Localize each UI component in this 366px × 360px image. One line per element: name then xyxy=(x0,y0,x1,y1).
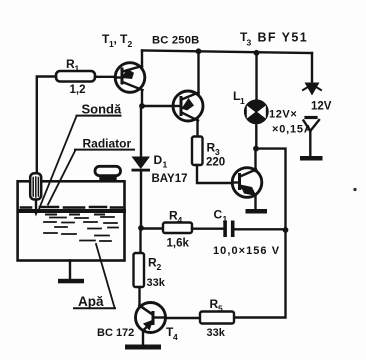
leader line Radiator xyxy=(48,150,76,205)
svg-text:BC 172: BC 172 xyxy=(97,327,134,339)
label R3 xyxy=(207,141,221,158)
svg-text:12V: 12V xyxy=(311,101,332,113)
label R1 xyxy=(66,57,80,74)
resistor R2 xyxy=(134,253,145,287)
resistor R1 xyxy=(56,71,95,82)
transistor T3 xyxy=(232,168,262,198)
underline Sonda xyxy=(77,115,121,117)
svg-text:1: 1 xyxy=(75,64,80,74)
transistor T2 xyxy=(173,91,203,121)
wire rail right drop to supply arrow xyxy=(311,53,313,82)
wire T1 collector to node xyxy=(141,91,143,106)
ground (supply return) xyxy=(300,156,323,161)
svg-text:4: 4 xyxy=(178,215,183,225)
water line xyxy=(19,207,125,215)
wire R3 bottom to T3 base xyxy=(197,165,233,183)
svg-text:BAY17: BAY17 xyxy=(152,173,188,185)
wire R4 to C1 xyxy=(192,227,223,229)
tank stand xyxy=(58,261,84,284)
svg-text:D: D xyxy=(154,153,163,167)
label R5 xyxy=(210,297,224,314)
svg-text:220: 220 xyxy=(206,157,225,169)
wire node right and down to C1 node xyxy=(256,149,286,230)
wire T1 emitter to rail xyxy=(141,51,143,68)
ground T3 emitter xyxy=(246,209,268,214)
label T4 xyxy=(166,325,178,342)
svg-text:2: 2 xyxy=(128,39,133,49)
svg-text:Sondă: Sondă xyxy=(82,102,122,117)
svg-text:33k: 33k xyxy=(207,327,226,339)
wire T3 collector up xyxy=(254,149,256,171)
leader line Sonda xyxy=(39,116,77,209)
ground T4 emitter xyxy=(125,345,161,350)
wire T4 emitter to ground xyxy=(142,330,144,345)
underline Apa xyxy=(74,307,115,309)
underline Radiator xyxy=(75,149,134,151)
svg-text:1,2: 1,2 xyxy=(70,84,86,96)
wire T2 collector to R3 xyxy=(196,120,198,138)
wire return arrow to ground xyxy=(309,130,311,156)
svg-text:4: 4 xyxy=(173,332,178,342)
water texture dashes xyxy=(44,217,118,241)
svg-text:12V×: 12V× xyxy=(269,109,297,121)
svg-text:5: 5 xyxy=(218,304,223,314)
node lamp / T3 / feedback junction xyxy=(253,146,259,152)
label D1 xyxy=(154,153,168,170)
wire R2 to T4 collector xyxy=(138,287,140,307)
svg-text:BC 250B: BC 250B xyxy=(152,35,199,47)
wire lamp bottom to node xyxy=(255,123,257,149)
resistor R3 xyxy=(192,137,203,166)
wire node down to R2 xyxy=(139,228,141,253)
wire T2 emitter to rail xyxy=(197,51,199,95)
wire R1 to T1 base xyxy=(95,76,116,78)
label C1 xyxy=(214,208,228,225)
label R4 xyxy=(169,209,183,226)
node C1 right junction xyxy=(283,227,289,233)
svg-text:3: 3 xyxy=(247,38,252,48)
filler cap xyxy=(95,166,121,181)
node D1 / R4 / R2 junction xyxy=(138,225,144,231)
label T3 xyxy=(240,30,252,48)
svg-text:3: 3 xyxy=(215,147,220,157)
supply arrow 12V down xyxy=(303,83,321,96)
resistor R4 xyxy=(163,223,192,234)
diode D1 xyxy=(132,106,151,228)
wire lamp top to rail xyxy=(255,52,257,101)
node T1 collector / T2 base / D1 junction xyxy=(139,103,145,109)
node T2 emitter rail junction xyxy=(196,48,202,54)
wire T4 base to R5 xyxy=(165,317,200,319)
svg-text:1: 1 xyxy=(163,160,168,170)
paper speck xyxy=(353,188,356,191)
tank (radiator) xyxy=(18,181,125,260)
supply arrow up (return) xyxy=(304,118,320,132)
svg-text:1,6k: 1,6k xyxy=(167,238,190,250)
svg-text:1: 1 xyxy=(240,96,245,106)
wire T3 emitter down xyxy=(254,195,256,210)
label T1,T2 xyxy=(102,32,133,49)
svg-text:BF Y51: BF Y51 xyxy=(258,31,309,45)
resistor R5 xyxy=(200,312,234,324)
svg-text:10,0×156 V: 10,0×156 V xyxy=(213,245,280,257)
svg-text:×0,15A: ×0,15A xyxy=(272,124,313,136)
node lamp rail junction xyxy=(254,50,260,56)
wire top supply rail xyxy=(142,51,312,54)
label R2 xyxy=(148,256,162,273)
lamp L1 xyxy=(245,101,267,123)
svg-text:33k: 33k xyxy=(147,277,166,289)
wire node to R4 xyxy=(141,227,163,229)
svg-text:Radiator: Radiator xyxy=(83,137,132,151)
capacitor C1 xyxy=(223,221,285,238)
wire node to T2 base xyxy=(142,105,174,107)
label L1 xyxy=(233,89,245,106)
svg-text:1: 1 xyxy=(223,214,228,224)
svg-text:Apă: Apă xyxy=(78,294,104,309)
wire R1 left down to probe xyxy=(37,77,56,174)
transistor T4 xyxy=(136,303,166,333)
wire C1 node down to R5 xyxy=(235,230,286,318)
probe (sonda) xyxy=(30,173,41,216)
leader line Apa xyxy=(96,244,115,308)
svg-text:2: 2 xyxy=(157,262,162,272)
svg-text:C: C xyxy=(214,208,223,222)
svg-text:,: , xyxy=(114,32,117,46)
transistor T1 xyxy=(115,63,145,93)
